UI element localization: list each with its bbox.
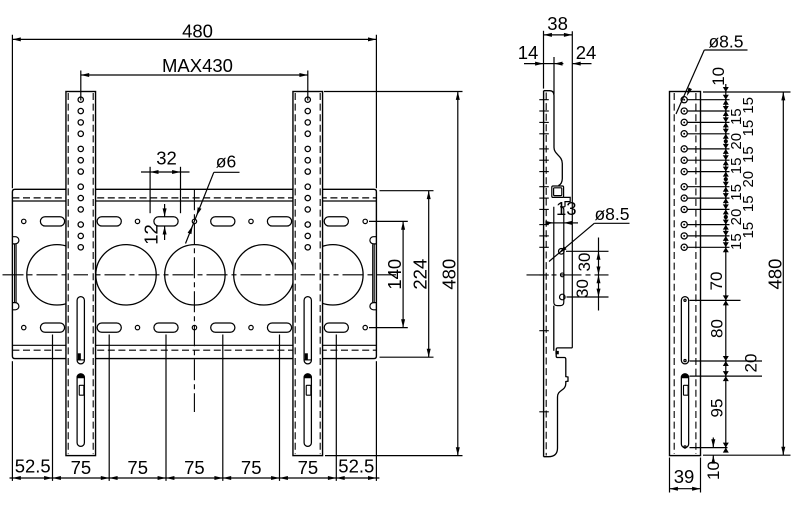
side view clip step xyxy=(564,197,571,206)
dim 480 top line xyxy=(12,38,376,40)
dim 39 extension lines xyxy=(669,458,671,493)
left rail (front view) xyxy=(66,92,96,456)
dim 38 extension lines xyxy=(543,31,545,89)
svg-text:14: 14 xyxy=(518,42,539,63)
right view lower slot top fill xyxy=(681,374,688,378)
top row small hole 2 xyxy=(135,219,139,223)
bottom dim line xyxy=(10,477,380,479)
dim o6 leader line xyxy=(186,172,214,243)
bottom dim arrows xyxy=(12,476,20,480)
svg-text:38: 38 xyxy=(547,13,568,34)
svg-text:ø8.5: ø8.5 xyxy=(594,204,629,224)
top row small hole 5 xyxy=(363,219,367,223)
wall plate outline xyxy=(12,189,376,358)
right view hole leader lines xyxy=(688,99,730,101)
dim 224 extension lines xyxy=(380,190,434,192)
dim 12 line lower xyxy=(164,226,166,240)
dim 32 line xyxy=(141,171,190,173)
svg-text:32: 32 xyxy=(156,148,177,169)
svg-text:30: 30 xyxy=(575,253,594,272)
dim 30 line xyxy=(598,238,600,311)
side view bottom hook xyxy=(544,348,573,457)
side view lower hole xyxy=(560,294,566,300)
right view hole 6 xyxy=(681,157,687,163)
svg-text:30: 30 xyxy=(573,279,592,298)
dim 39 line xyxy=(670,488,701,490)
side view clip block outer xyxy=(552,186,564,197)
dim 480 rv line xyxy=(782,92,784,455)
right edge lower notch xyxy=(370,303,376,310)
side view centre line xyxy=(527,274,609,276)
svg-text:12: 12 xyxy=(141,224,162,245)
side view hidden line xyxy=(545,93,547,456)
horizontal centre line xyxy=(3,274,397,276)
side view middle hole xyxy=(560,273,564,277)
dim o6 arrows xyxy=(197,207,202,216)
dim o8.5 right leader xyxy=(676,50,704,114)
dim 30 extension lines xyxy=(566,250,609,252)
right view lower slot clip xyxy=(684,385,689,395)
side view clip block inner xyxy=(554,188,562,196)
right view hole 8 xyxy=(681,184,687,190)
bottom row small hole 4 xyxy=(249,325,253,329)
dim MAX430 extension lines xyxy=(80,71,82,101)
top row slot 5 xyxy=(267,217,291,226)
side view rail top profile xyxy=(544,91,563,186)
bottom row slot 5 xyxy=(267,323,291,332)
top row small hole 1 xyxy=(22,219,26,223)
dim o8.5 side leader xyxy=(549,223,594,261)
right view hole 3 xyxy=(681,119,687,125)
bottom row small hole 2 xyxy=(135,325,139,329)
bottom row slot 3 xyxy=(154,323,178,332)
right view dashed lines xyxy=(673,93,675,454)
plate top bend line (dashed) xyxy=(12,197,376,199)
dim 10 bottom lines xyxy=(712,438,714,448)
plate bottom bend line (dashed) xyxy=(12,349,376,351)
dim 480 rv extension lines xyxy=(703,91,791,93)
vertical centre line xyxy=(193,189,195,412)
dim 14 line xyxy=(524,63,544,65)
dim 480 right line xyxy=(457,92,459,456)
dim 224 arrows xyxy=(427,191,431,199)
dim o8.5 right arrow xyxy=(687,88,692,97)
dim 12 line upper xyxy=(164,204,166,217)
right view chain arrows xyxy=(723,87,729,92)
svg-text:75: 75 xyxy=(71,457,92,478)
dim MAX430 line xyxy=(81,74,308,76)
large hole circle 5 xyxy=(303,245,363,305)
right view hole 1 xyxy=(681,97,687,103)
large hole circle 4 xyxy=(234,245,294,305)
dim 32 arrows xyxy=(150,170,158,174)
dim 480 right extension lines xyxy=(324,91,463,93)
bottom row slot 4 xyxy=(211,323,235,332)
dim 32 extension lines xyxy=(149,167,151,213)
dim 14 arrow right xyxy=(554,63,563,65)
svg-text:ø6: ø6 xyxy=(216,151,236,171)
dim 140 arrows xyxy=(401,221,405,229)
side view back edge xyxy=(543,91,545,457)
dim o8.5 right underline xyxy=(704,49,747,51)
dim 13 line xyxy=(546,222,554,224)
plate bottom fold line xyxy=(12,344,376,346)
right view lower slot xyxy=(681,374,688,448)
right edge upper notch xyxy=(370,237,376,244)
svg-text:MAX430: MAX430 xyxy=(162,55,233,76)
side view hole tick marks xyxy=(539,99,549,101)
side view hole o8.5 xyxy=(559,249,565,255)
dim 30 arrows xyxy=(597,251,601,259)
svg-text:10: 10 xyxy=(709,67,728,86)
top row slot 4 xyxy=(211,217,235,226)
svg-text:15: 15 xyxy=(728,233,745,250)
right view hole 7 xyxy=(681,168,687,174)
right edge flange line xyxy=(373,244,375,302)
right view upper slot xyxy=(681,297,688,364)
dim o8.5 side underline xyxy=(594,222,629,224)
top row slot 2 xyxy=(97,217,121,226)
svg-text:75: 75 xyxy=(184,457,205,478)
svg-text:10: 10 xyxy=(704,461,723,480)
right view hole 13 xyxy=(681,244,687,250)
svg-text:224: 224 xyxy=(410,259,431,290)
right view hole 11 xyxy=(681,221,687,227)
side view lower web left edge xyxy=(553,306,555,351)
dim MAX430 arrows xyxy=(81,73,89,77)
bottom row small hole 5 xyxy=(363,325,367,329)
bottom row small hole 1 xyxy=(22,325,26,329)
svg-text:20: 20 xyxy=(742,354,761,373)
left edge flange line xyxy=(14,244,16,302)
dim 480 right arrows xyxy=(456,92,460,100)
svg-text:52.5: 52.5 xyxy=(15,456,51,477)
right view rail outline xyxy=(670,92,701,456)
bottom row slot 2 xyxy=(97,323,121,332)
svg-text:80: 80 xyxy=(708,319,727,338)
bottom dim extension lines xyxy=(52,335,54,481)
dim 480 top extension lines xyxy=(11,35,13,189)
large hole circle 2 xyxy=(96,245,156,305)
right view hole 9 xyxy=(681,195,687,201)
svg-text:24: 24 xyxy=(576,42,597,63)
svg-text:13: 13 xyxy=(556,198,577,219)
bottom row small hole 3 xyxy=(192,325,196,329)
right view hole 12 xyxy=(681,233,687,239)
dim 480 top arrows xyxy=(12,37,20,41)
dim 140 extension lines xyxy=(369,220,408,222)
right view chain line xyxy=(725,84,727,452)
bottom row slot 6 xyxy=(324,323,348,332)
right view hole 10 xyxy=(681,206,687,212)
svg-text:70: 70 xyxy=(707,272,726,291)
right view hole 5 xyxy=(681,146,687,152)
svg-text:95: 95 xyxy=(708,399,727,418)
side view bracket bulge xyxy=(554,207,565,306)
svg-text:480: 480 xyxy=(439,259,460,290)
left edge upper notch xyxy=(12,237,19,244)
bottom row slot 1 xyxy=(40,323,64,332)
side view front face line xyxy=(571,31,573,348)
svg-text:75: 75 xyxy=(298,457,319,478)
svg-text:480: 480 xyxy=(765,259,786,290)
right view slot leader lines xyxy=(690,299,741,301)
svg-text:ø8.5: ø8.5 xyxy=(708,32,743,52)
plate top fold line xyxy=(12,200,376,202)
right view upper slot dots xyxy=(684,299,686,301)
large hole circle 1 xyxy=(27,245,87,305)
svg-text:75: 75 xyxy=(127,457,148,478)
dim 224 line xyxy=(428,191,430,358)
right view hole 4 xyxy=(681,131,687,137)
centre line dash across left rail xyxy=(74,274,89,276)
svg-text:39: 39 xyxy=(674,466,695,487)
svg-text:52.5: 52.5 xyxy=(338,456,374,477)
centre line dash across right rail xyxy=(301,274,315,276)
dim o8.5 side arrow xyxy=(559,246,567,253)
dim o6 leader underline xyxy=(214,171,240,173)
dim 480 rv arrows xyxy=(781,92,785,100)
right view chain gap dots xyxy=(724,140,727,143)
right view lower slot dot xyxy=(684,446,686,448)
top row slot 6 xyxy=(324,217,348,226)
top row small hole 3 xyxy=(192,219,196,223)
dim 38 arrows xyxy=(544,33,552,37)
large hole circle 3 xyxy=(165,245,225,305)
top row slot 1 xyxy=(40,217,64,226)
svg-text:140: 140 xyxy=(384,259,405,290)
dim 38 line xyxy=(544,34,573,36)
right rail (front view) xyxy=(293,92,323,456)
left edge lower notch xyxy=(12,303,18,310)
svg-text:75: 75 xyxy=(241,457,262,478)
dim 140 line xyxy=(402,221,404,327)
dim 39 arrows xyxy=(670,487,678,491)
right view hole 2 xyxy=(681,108,687,114)
side view hook corner mark xyxy=(555,351,558,354)
top row small hole 4 xyxy=(249,219,253,223)
top row slot 3 xyxy=(154,217,178,226)
dim 24 line xyxy=(572,63,591,65)
svg-text:480: 480 xyxy=(182,21,213,42)
